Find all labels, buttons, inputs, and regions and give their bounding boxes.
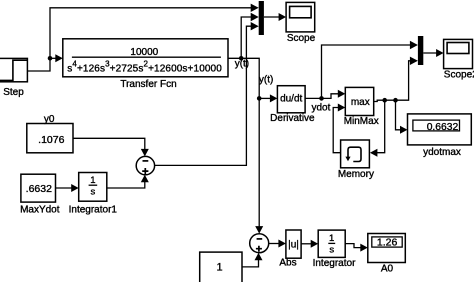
svg-text:s: s: [329, 245, 334, 256]
svg-text:0.6632: 0.6632: [427, 122, 459, 133]
svg-text:y0: y0: [44, 114, 55, 125]
svg-text:.6632: .6632: [26, 183, 52, 195]
svg-text:Derivative: Derivative: [270, 113, 315, 124]
svg-text:Scope2: Scope2: [444, 70, 474, 81]
svg-text:1: 1: [90, 175, 95, 186]
svg-text:max: max: [351, 97, 370, 108]
svg-text:1: 1: [216, 262, 222, 274]
svg-text:Abs: Abs: [279, 258, 296, 269]
svg-text:MaxYdot: MaxYdot: [20, 204, 60, 215]
svg-text:ydot: ydot: [312, 102, 331, 113]
svg-text:Memory: Memory: [338, 169, 374, 180]
svg-text:Step: Step: [3, 87, 24, 98]
svg-text:Scope: Scope: [287, 33, 316, 44]
svg-text:du/dt: du/dt: [280, 93, 302, 104]
svg-text:MinMax: MinMax: [344, 116, 379, 127]
svg-text:A0: A0: [381, 264, 394, 275]
svg-text:.1076: .1076: [38, 134, 64, 146]
svg-text:1.26: 1.26: [377, 237, 398, 249]
svg-text:Integrator1: Integrator1: [69, 204, 118, 215]
svg-text:ydotmax: ydotmax: [423, 147, 461, 158]
svg-text:10000: 10000: [130, 47, 158, 58]
svg-text:Transfer Fcn: Transfer Fcn: [120, 79, 176, 90]
svg-text:1: 1: [329, 233, 334, 244]
svg-text:y(t): y(t): [259, 75, 273, 86]
svg-text:s: s: [91, 187, 96, 198]
svg-text:y(t): y(t): [235, 59, 249, 70]
svg-text:Integrator: Integrator: [313, 258, 356, 269]
svg-text:|u|: |u|: [288, 240, 299, 251]
